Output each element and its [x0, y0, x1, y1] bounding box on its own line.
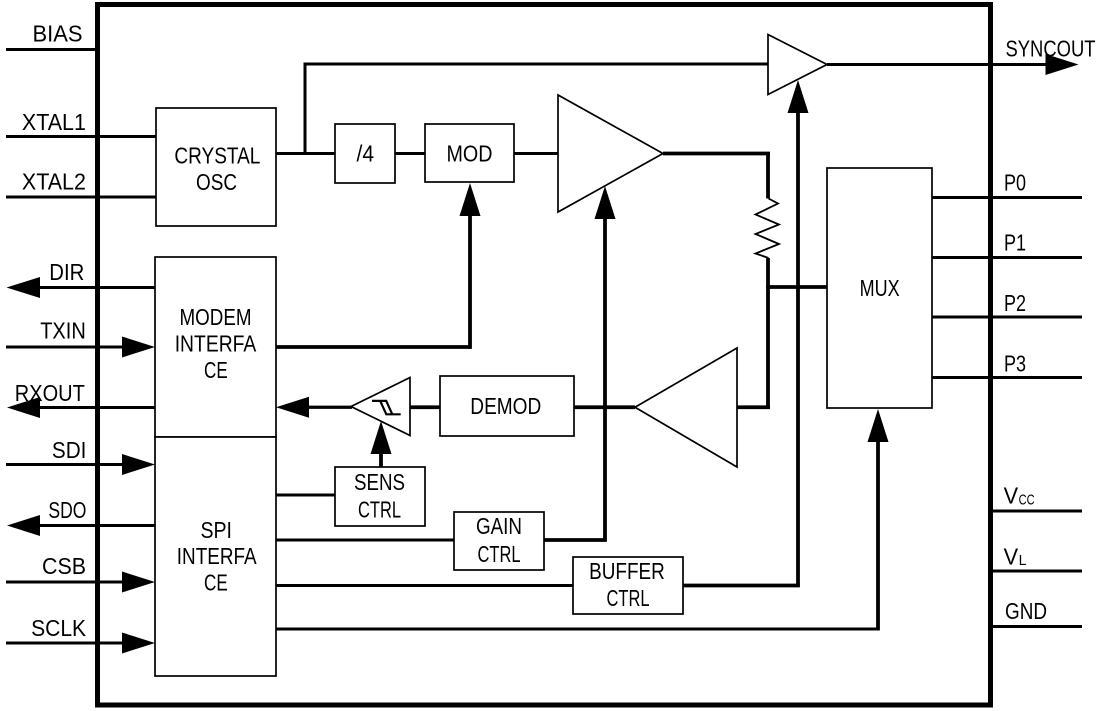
wire TX amp output: [663, 152, 770, 156]
svg-text:CTRL: CTRL: [358, 497, 401, 523]
arrowhead into MODEM (points left): [276, 397, 309, 418]
wire XTAL1: [6, 135, 156, 138]
svg-text:CE: CE: [204, 357, 228, 383]
arrowhead TXIN (points right into MODEM): [122, 337, 155, 358]
svg-text:BUFFER: BUFFER: [589, 558, 665, 584]
wire up to MOD: [468, 215, 472, 349]
svg-text:V: V: [1004, 483, 1019, 509]
wire P0: [932, 196, 1082, 199]
wire XTAL2: [6, 196, 156, 199]
svg-text:/4: /4: [357, 141, 375, 167]
wire RXOUT: [20, 406, 155, 409]
arrowhead into TX amp (points up): [595, 186, 616, 219]
wire P3: [932, 376, 1082, 379]
wire SPI to SENS CTRL: [276, 494, 335, 497]
svg-text:L: L: [1019, 552, 1027, 569]
svg-text:CSB: CSB: [42, 553, 86, 579]
wire VL: [990, 570, 1082, 573]
wire up to MUX: [876, 442, 880, 631]
block DEMOD: [440, 376, 574, 436]
wire node down to resistor: [766, 152, 770, 199]
arrowhead SDI (points right into SPI): [122, 454, 155, 475]
block /4 divider: [335, 124, 395, 183]
wire DIR: [20, 286, 155, 289]
wire DEMOD to schmitt: [410, 405, 440, 409]
wire SCLK: [6, 642, 125, 645]
wire top rail to sync buffer: [304, 63, 769, 66]
svg-text:SCLK: SCLK: [31, 615, 86, 641]
wire GND: [990, 625, 1082, 628]
svg-text:CTRL: CTRL: [607, 585, 650, 611]
svg-text:DEMOD: DEMOD: [470, 393, 541, 419]
wire crystal osc output: [276, 152, 335, 155]
arrowhead RXOUT (points left): [7, 397, 40, 418]
wire SENS CTRL up to schmitt: [379, 454, 383, 467]
arrowhead SCLK (points right into SPI): [122, 633, 155, 654]
wire node to MUX: [766, 285, 827, 289]
wire node to RX amp input: [737, 405, 770, 409]
svg-text:CE: CE: [204, 570, 228, 596]
arrowhead DIR (points left): [7, 277, 41, 298]
wire SYNCOUT from buffer to pin: [827, 63, 1047, 66]
wire up to TX amp: [603, 219, 607, 542]
block MOD: [425, 124, 514, 182]
block MUX: [827, 168, 932, 408]
wire P2: [932, 316, 1082, 319]
svg-text:INTERFA: INTERFA: [175, 331, 257, 357]
wire BIAS: [6, 48, 97, 51]
block SENS CTRL: [335, 467, 425, 526]
svg-text:DIR: DIR: [49, 259, 84, 285]
wire SPI to GAIN CTRL: [276, 539, 454, 542]
svg-text:MOD: MOD: [447, 141, 493, 167]
svg-text:CTRL: CTRL: [478, 541, 521, 567]
schmitt trigger (points left): [351, 378, 410, 436]
svg-text:P1: P1: [1004, 230, 1026, 256]
wire P1: [932, 256, 1082, 259]
svg-text:CC: CC: [1019, 492, 1035, 509]
wire resistor to RX node: [766, 258, 770, 407]
svg-text:OSC: OSC: [196, 169, 237, 195]
arrowhead into schmitt (points up): [371, 421, 392, 454]
op-amp SYNC buffer: [768, 35, 827, 95]
op-amp RX amplifier (points left): [635, 348, 737, 467]
svg-text:TXIN: TXIN: [40, 317, 86, 343]
svg-text:P2: P2: [1004, 290, 1026, 316]
svg-text:INTERFA: INTERFA: [177, 543, 257, 569]
wire RX amp to DEMOD: [574, 405, 635, 409]
arrowhead into MUX (points up): [868, 409, 889, 442]
arrowhead SYNCOUT (points right): [1046, 54, 1079, 75]
arrowhead CSB (points right into SPI): [122, 572, 155, 593]
svg-text:SENS: SENS: [354, 469, 405, 495]
svg-text:MUX: MUX: [860, 275, 900, 301]
wire SPI to MUX select: [276, 628, 878, 631]
block BUFFER CTRL: [573, 557, 683, 614]
svg-text:V: V: [1004, 543, 1019, 569]
wire schmitt to RXOUT arrowhead: [308, 406, 352, 409]
svg-text:BIAS: BIAS: [33, 21, 83, 47]
svg-text:P0: P0: [1004, 170, 1026, 196]
svg-text:XTAL1: XTAL1: [22, 109, 86, 135]
arrowhead SDO (points left): [7, 515, 40, 536]
arrowhead into sync buffer (points up): [788, 80, 809, 113]
svg-text:SDI: SDI: [52, 437, 87, 463]
hysteresis symbol: [372, 401, 401, 414]
wire CSB: [6, 581, 125, 584]
svg-text:XTAL2: XTAL2: [22, 169, 86, 195]
svg-text:P3: P3: [1004, 351, 1026, 377]
resistor: [756, 199, 780, 259]
wire VCC: [990, 510, 1082, 513]
wire SPI to BUFFER CTRL: [276, 584, 573, 587]
svg-text:SPI: SPI: [201, 517, 233, 543]
wire BUFFER CTRL to sync buffer: [796, 113, 800, 586]
wire branch up to top rail: [304, 64, 307, 154]
block CRYSTAL OSC: [156, 108, 276, 226]
wire GAIN CTRL to TX amp: [544, 538, 605, 542]
wire TXIN: [6, 346, 125, 349]
op-amp TX amplifier: [558, 95, 663, 212]
wire MOD to TX amp: [514, 152, 558, 155]
block MODEM INTERFACE: [155, 257, 276, 437]
wire /4 to MOD: [395, 152, 425, 155]
wire SDO: [20, 524, 155, 527]
svg-text:MODEM: MODEM: [180, 304, 252, 330]
block GAIN CTRL: [454, 512, 544, 570]
svg-text:CRYSTAL: CRYSTAL: [174, 143, 260, 169]
svg-text:GND: GND: [1005, 598, 1047, 624]
svg-text:GAIN: GAIN: [476, 513, 522, 539]
wire MODEM to MOD: [276, 345, 470, 349]
wire BUFFER CTRL output: [683, 584, 800, 588]
svg-text:SDO: SDO: [48, 497, 86, 523]
arrowhead into MOD (points up): [460, 183, 481, 216]
wire SDI: [6, 463, 125, 466]
block SPI INTERFACE: [155, 437, 276, 676]
